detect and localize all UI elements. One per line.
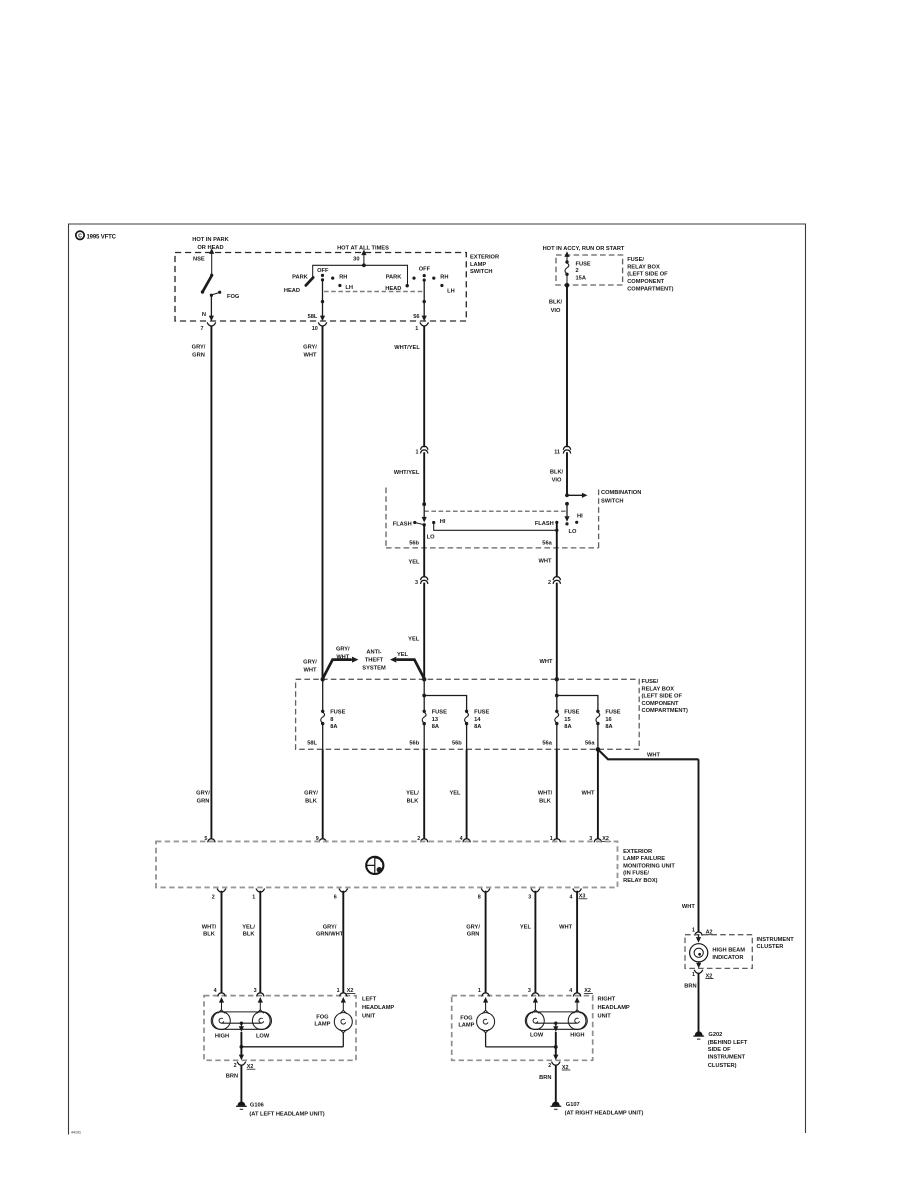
svg-text:(LEFT SIDE OF: (LEFT SIDE OF <box>642 694 683 700</box>
svg-text:BRN: BRN <box>226 1073 238 1079</box>
wire 56a out <box>555 529 558 532</box>
headlamp bulb high/low left <box>211 1012 271 1029</box>
svg-text:2: 2 <box>212 894 215 900</box>
svg-text:1: 1 <box>692 928 695 934</box>
svg-text:G107: G107 <box>566 1102 580 1108</box>
svg-text:FUSE: FUSE <box>474 710 489 716</box>
connector pin 1 X2 below cluster <box>694 970 703 974</box>
node junction left dimmer <box>422 502 426 506</box>
fog lamp left <box>334 1013 352 1031</box>
node BLK/VIO branch arrow <box>565 493 569 497</box>
instrument cluster connector pin 1 A2 <box>695 932 702 936</box>
svg-text:GRY/: GRY/ <box>303 659 317 665</box>
svg-text:G202: G202 <box>708 1032 722 1038</box>
fuse F15 8A <box>556 679 558 711</box>
fuse F13 8A <box>423 679 425 711</box>
svg-text:CLUSTER: CLUSTER <box>757 944 784 950</box>
exterior lamp switch box <box>175 253 466 322</box>
svg-text:7: 7 <box>201 326 204 332</box>
svg-text:BLK: BLK <box>243 932 256 938</box>
svg-text:UNIT: UNIT <box>362 1013 376 1019</box>
svg-text:WHT: WHT <box>304 667 317 673</box>
wire WHT below fuse 16 <box>597 749 599 839</box>
svg-text:OFF: OFF <box>419 266 431 272</box>
fuse/relay box (fuse 2) <box>556 255 623 285</box>
wire 56 output pin 1 <box>423 280 425 317</box>
svg-text:CLUSTER): CLUSTER) <box>708 1063 737 1069</box>
monitor unit connector cups bottom <box>217 889 226 893</box>
svg-text:COMBINATION: COMBINATION <box>601 490 641 496</box>
svg-text:WHT: WHT <box>336 654 349 660</box>
svg-text:COMPARTMENT): COMPARTMENT) <box>642 708 688 714</box>
svg-text:(IN FUSE/: (IN FUSE/ <box>623 871 649 877</box>
svg-text:HOT AT ALL TIMES: HOT AT ALL TIMES <box>337 246 389 252</box>
fog lamp right <box>477 1013 495 1031</box>
svg-text:LH: LH <box>447 288 455 294</box>
wire YEL below fuse 14 <box>466 749 468 839</box>
svg-text:YEL: YEL <box>408 559 420 565</box>
svg-text:HOT IN PARK: HOT IN PARK <box>192 237 229 243</box>
wire N output pin 7 <box>210 295 212 317</box>
svg-text:THEFT: THEFT <box>365 657 384 663</box>
headlamp bulb low/high right <box>525 1012 587 1029</box>
svg-text:BLK: BLK <box>407 799 420 805</box>
svg-text:WHT/YEL: WHT/YEL <box>394 345 420 351</box>
svg-text:FOG: FOG <box>316 1014 329 1020</box>
fuse F2 15A <box>564 251 569 257</box>
svg-text:WHT: WHT <box>582 791 595 797</box>
svg-text:ANTI-: ANTI- <box>366 649 381 655</box>
wire BRN left <box>240 1065 242 1102</box>
svg-text:(AT RIGHT HEADLAMP UNIT): (AT RIGHT HEADLAMP UNIT) <box>565 1110 644 1116</box>
connector pin 11 <box>563 446 570 450</box>
wire YEL/BLK to left headlamp <box>259 891 261 993</box>
svg-text:2: 2 <box>417 836 420 842</box>
svg-text:44191: 44191 <box>71 1131 81 1135</box>
svg-text:8A: 8A <box>564 724 571 730</box>
wire WHT/YEL <box>423 326 425 448</box>
wire GRY/GRN long <box>210 326 212 839</box>
connector pins top right headlamp <box>482 993 489 997</box>
ground G202 <box>693 1031 704 1039</box>
svg-text:56a: 56a <box>542 541 552 547</box>
wire WHT right column <box>698 759 700 932</box>
svg-text:8A: 8A <box>474 724 481 730</box>
svg-text:COMPARTMENT): COMPARTMENT) <box>627 286 673 292</box>
ground G106 <box>236 1102 247 1110</box>
wire GRY/GRN/WHT to left fog <box>342 891 344 993</box>
svg-text:N: N <box>202 312 206 318</box>
svg-text:1995 VFTC: 1995 VFTC <box>87 234 117 240</box>
wire BRN cluster <box>698 973 700 1032</box>
svg-text:HEADLAMP: HEADLAMP <box>598 1005 630 1011</box>
svg-text:GRN/WHT: GRN/WHT <box>316 932 344 938</box>
svg-text:FUSE: FUSE <box>330 710 345 716</box>
wire 56b out <box>423 525 425 578</box>
wire GRY/BLK <box>322 749 324 839</box>
svg-text:COMPONENT: COMPONENT <box>642 701 679 707</box>
svg-text:1: 1 <box>416 449 419 455</box>
wire WHT to right headlamp <box>576 891 578 993</box>
svg-text:GRY/: GRY/ <box>303 345 317 351</box>
monitor unit symbol <box>366 857 383 874</box>
wire YEL to right headlamp <box>534 891 536 993</box>
svg-text:YEL: YEL <box>397 652 409 658</box>
svg-text:15A: 15A <box>576 275 586 281</box>
svg-text:BLK: BLK <box>203 932 216 938</box>
svg-text:YEL: YEL <box>520 924 532 930</box>
svg-text:MONITORING UNIT: MONITORING UNIT <box>623 863 675 869</box>
mechanical link dashed <box>424 510 567 512</box>
svg-text:11: 11 <box>554 449 560 455</box>
svg-text:2: 2 <box>548 1063 551 1069</box>
svg-text:YEL/: YEL/ <box>406 791 419 797</box>
svg-text:FUSE: FUSE <box>564 710 579 716</box>
svg-text:OR HEAD: OR HEAD <box>197 245 223 251</box>
svg-text:1: 1 <box>252 894 255 900</box>
svg-text:8: 8 <box>478 894 481 900</box>
svg-text:WHT: WHT <box>304 353 317 359</box>
svg-text:3: 3 <box>528 988 531 994</box>
svg-text:RH: RH <box>440 275 448 281</box>
svg-text:LAMP: LAMP <box>458 1023 474 1029</box>
wire bulb common right <box>535 1022 577 1024</box>
svg-text:13: 13 <box>432 717 438 723</box>
svg-text:2: 2 <box>234 1063 237 1069</box>
wire BRN right <box>555 1065 557 1102</box>
svg-text:LEFT: LEFT <box>362 996 377 1002</box>
svg-text:BLK/: BLK/ <box>549 300 563 306</box>
svg-text:HIGH: HIGH <box>215 1033 229 1039</box>
fuse F16 8A <box>596 710 600 726</box>
svg-text:BLK/: BLK/ <box>550 470 564 476</box>
wire WHT/YEL lower <box>423 452 425 504</box>
svg-text:56b: 56b <box>452 741 462 747</box>
node FOG contact <box>210 294 213 297</box>
svg-text:LH: LH <box>345 285 353 291</box>
wire common ground right <box>554 1045 558 1049</box>
svg-text:C: C <box>78 234 82 240</box>
svg-text:GRN: GRN <box>467 932 480 938</box>
connector pins top left headlamp <box>218 993 225 997</box>
wire GRY/GRN to right fog <box>485 891 487 993</box>
instrument cluster box <box>685 935 752 969</box>
svg-text:HI: HI <box>440 519 446 525</box>
svg-text:BLK: BLK <box>539 799 552 805</box>
svg-text:PARK: PARK <box>386 275 403 281</box>
svg-text:WHT: WHT <box>540 659 553 665</box>
svg-text:GRN: GRN <box>197 799 210 805</box>
svg-text:(LEFT SIDE OF: (LEFT SIDE OF <box>627 272 668 278</box>
svg-text:INSTRUMENT: INSTRUMENT <box>708 1055 746 1061</box>
wire branch to fuse 14 <box>422 694 426 698</box>
svg-text:56: 56 <box>413 314 419 320</box>
svg-text:8A: 8A <box>330 724 337 730</box>
svg-text:3: 3 <box>254 988 257 994</box>
svg-text:8: 8 <box>330 717 333 723</box>
svg-text:EXTERIOR: EXTERIOR <box>623 849 652 855</box>
fuse F8 8A <box>322 679 324 711</box>
svg-text:YEL: YEL <box>449 791 461 797</box>
switch dimmer right <box>565 502 569 506</box>
svg-text:8A: 8A <box>432 724 439 730</box>
svg-text:GRY/: GRY/ <box>466 924 480 930</box>
svg-text:58L: 58L <box>308 314 318 320</box>
svg-text:56b: 56b <box>409 741 419 747</box>
svg-text:FOG: FOG <box>460 1016 473 1022</box>
svg-text:30: 30 <box>353 256 359 262</box>
svg-text:6: 6 <box>334 894 337 900</box>
wire BLK/VIO lower <box>566 452 568 495</box>
svg-text:BRN: BRN <box>684 984 696 990</box>
svg-text:INSTRUMENT: INSTRUMENT <box>757 937 795 943</box>
wire NSE feed stub <box>211 252 213 275</box>
svg-text:GRY/: GRY/ <box>304 791 318 797</box>
svg-text:SYSTEM: SYSTEM <box>362 665 386 671</box>
svg-text:NSE: NSE <box>193 257 205 263</box>
svg-text:RELAY BOX: RELAY BOX <box>627 264 660 270</box>
combination switch box <box>386 488 599 548</box>
node junction dots on box top <box>321 677 325 681</box>
ground G107 <box>550 1102 561 1110</box>
switch dimmer left <box>423 504 425 517</box>
wire common ground left <box>240 1045 244 1049</box>
high beam indicator lamp <box>696 937 701 943</box>
wire WHT/BLK to left headlamp <box>221 891 223 993</box>
exterior lamp failure monitoring unit box <box>156 841 618 887</box>
svg-text:FOG: FOG <box>227 294 240 300</box>
svg-text:INDICATOR: INDICATOR <box>712 955 743 961</box>
monitor unit connector caps top <box>208 839 215 843</box>
svg-text:(AT LEFT HEADLAMP UNIT): (AT LEFT HEADLAMP UNIT) <box>249 1112 324 1118</box>
svg-text:LOW: LOW <box>530 1032 544 1038</box>
wire BLK/VIO <box>566 285 568 447</box>
svg-text:1: 1 <box>337 988 340 994</box>
svg-text:FLASH: FLASH <box>393 522 412 528</box>
svg-text:GRY/: GRY/ <box>336 646 350 652</box>
svg-text:FUSE: FUSE <box>432 710 447 716</box>
svg-text:HI: HI <box>577 514 583 520</box>
svg-text:15: 15 <box>564 717 570 723</box>
switch NSE fog lever <box>210 274 213 277</box>
svg-text:RELAY BOX): RELAY BOX) <box>623 878 658 884</box>
svg-text:1: 1 <box>478 988 481 994</box>
svg-text:1: 1 <box>692 972 695 978</box>
svg-text:VIO: VIO <box>551 308 561 314</box>
svg-text:EXTERIOR: EXTERIOR <box>470 255 499 261</box>
svg-text:58L: 58L <box>307 741 317 747</box>
svg-text:8A: 8A <box>605 724 612 730</box>
svg-text:WHT: WHT <box>559 924 572 930</box>
svg-text:YEL: YEL <box>408 636 420 642</box>
svg-text:WHT/YEL: WHT/YEL <box>394 470 420 476</box>
svg-text:WHT: WHT <box>539 559 552 565</box>
svg-text:56b: 56b <box>409 541 419 547</box>
svg-text:3: 3 <box>528 894 531 900</box>
svg-text:10: 10 <box>312 326 318 332</box>
svg-text:PARK: PARK <box>292 274 309 280</box>
svg-text:HIGH: HIGH <box>570 1032 584 1038</box>
svg-text:HIGH BEAM: HIGH BEAM <box>712 948 745 954</box>
node 56a split to WHT right <box>596 747 601 752</box>
svg-text:LOW: LOW <box>256 1033 270 1039</box>
svg-text:WHT/: WHT/ <box>538 791 553 797</box>
svg-text:14: 14 <box>474 717 481 723</box>
svg-text:FUSE: FUSE <box>605 710 620 716</box>
wire 58L output pin 10 <box>322 280 324 317</box>
svg-text:HEAD: HEAD <box>284 288 300 294</box>
svg-text:GRY/: GRY/ <box>196 791 210 797</box>
wire HI link to 56a <box>434 523 557 531</box>
fuse/relay box lower <box>296 679 640 749</box>
svg-text:GRY/: GRY/ <box>192 345 206 351</box>
svg-text:WHT: WHT <box>682 904 695 910</box>
connector pin 1 <box>421 446 428 450</box>
svg-text:LAMP: LAMP <box>470 262 486 268</box>
wire 30 bus <box>313 265 408 285</box>
svg-text:LAMP: LAMP <box>314 1021 330 1027</box>
svg-text:56a: 56a <box>585 741 595 747</box>
svg-text:YEL/: YEL/ <box>242 924 255 930</box>
svg-text:16: 16 <box>605 717 611 723</box>
wire WHT/BLK <box>556 749 558 839</box>
svg-text:LO: LO <box>569 529 577 535</box>
svg-text:SIDE OF: SIDE OF <box>708 1047 731 1053</box>
svg-text:FUSE: FUSE <box>576 261 591 267</box>
svg-text:2: 2 <box>548 580 551 586</box>
svg-text:FUSE/: FUSE/ <box>642 679 659 685</box>
svg-text:RELAY BOX: RELAY BOX <box>642 686 675 692</box>
svg-text:3: 3 <box>415 580 418 586</box>
mechanical link dashed <box>324 291 423 293</box>
svg-text:(BEHIND LEFT: (BEHIND LEFT <box>708 1040 748 1046</box>
wire YEL/BLK <box>423 749 425 839</box>
wire branch to fuse 16 <box>555 694 559 698</box>
svg-text:RIGHT: RIGHT <box>598 996 616 1002</box>
svg-text:WHT/: WHT/ <box>202 924 217 930</box>
svg-text:56a: 56a <box>542 741 552 747</box>
svg-text:BRN: BRN <box>539 1075 551 1081</box>
svg-text:HOT IN ACCY, RUN OR START: HOT IN ACCY, RUN OR START <box>543 246 625 252</box>
svg-text:4: 4 <box>569 988 572 994</box>
svg-text:LAMP FAILURE: LAMP FAILURE <box>623 856 665 862</box>
left headlamp unit box <box>204 996 356 1061</box>
wire GRY/WHT <box>322 326 324 680</box>
svg-text:UNIT: UNIT <box>598 1013 612 1019</box>
wire bulb common left <box>221 1022 261 1024</box>
svg-text:4: 4 <box>570 894 573 900</box>
svg-text:COMPONENT: COMPONENT <box>627 279 664 285</box>
svg-text:LO: LO <box>427 535 435 541</box>
svg-text:GRN: GRN <box>192 353 205 359</box>
svg-text:HEADLAMP: HEADLAMP <box>362 1005 394 1011</box>
anti-theft branch YEL <box>398 660 425 679</box>
svg-text:VIO: VIO <box>552 478 562 484</box>
svg-text:2: 2 <box>576 268 579 274</box>
svg-text:SWITCH: SWITCH <box>470 269 492 275</box>
svg-text:RH: RH <box>339 275 347 281</box>
svg-text:4: 4 <box>214 988 217 994</box>
right headlamp unit box <box>452 996 593 1061</box>
fuse F14 8A <box>465 710 469 726</box>
svg-text:FUSE/: FUSE/ <box>627 257 644 263</box>
svg-text:SWITCH: SWITCH <box>601 498 623 504</box>
page frame top/left/right border <box>69 224 806 1135</box>
svg-text:G106: G106 <box>250 1103 264 1109</box>
svg-text:BLK: BLK <box>305 799 318 805</box>
svg-text:OFF: OFF <box>317 268 329 274</box>
svg-text:FLASH: FLASH <box>535 521 554 527</box>
svg-text:WHT: WHT <box>647 752 660 758</box>
svg-text:GRY/: GRY/ <box>323 924 337 930</box>
svg-text:1: 1 <box>415 326 418 332</box>
